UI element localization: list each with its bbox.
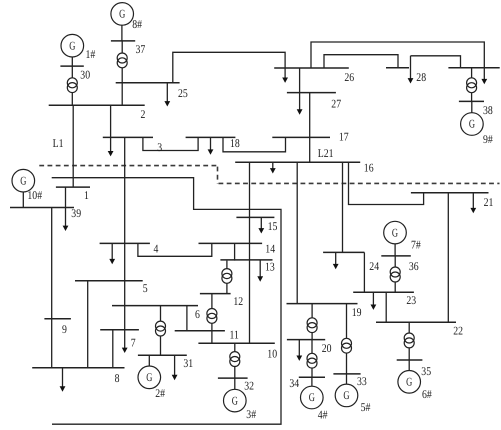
wire bus16-bus24 — [342, 162, 344, 252]
label 8 — [115, 371, 120, 385]
load arrow bus13 — [257, 260, 263, 282]
label 4 — [154, 242, 159, 256]
wire bus23-bus22 — [385, 292, 387, 322]
wire line26-29 outer — [311, 42, 484, 68]
label 6 — [195, 307, 200, 321]
svg-text:G: G — [392, 225, 398, 239]
generator 10# — [12, 169, 35, 192]
load arrow bus25 — [164, 83, 170, 107]
bus 21 — [411, 192, 489, 194]
transformer T13-12 — [222, 269, 232, 284]
transformer T29-38 — [467, 78, 477, 93]
label 34 — [289, 376, 299, 390]
stem G2#-bus31 — [148, 355, 150, 366]
generator 8# — [111, 3, 134, 26]
generator 1# — [61, 34, 84, 57]
load arrow bus18 — [208, 137, 214, 154]
label 17 — [339, 129, 349, 143]
dashed tie-line boundary (left) — [39, 165, 217, 167]
bus 30 — [60, 65, 83, 67]
svg-text:7#: 7# — [411, 238, 421, 252]
svg-text:G: G — [20, 173, 26, 187]
wire bus21-bus22 — [447, 193, 449, 323]
bus 33 — [333, 373, 360, 375]
label 6# — [422, 387, 432, 401]
load arrow bus8 — [60, 368, 66, 392]
wire bus22-bus35 (via T22-35) — [408, 322, 410, 360]
label 3 — [157, 140, 162, 154]
transformer T6-31 — [156, 321, 166, 336]
svg-text:G: G — [146, 370, 152, 384]
load arrow bus23 — [371, 292, 377, 310]
wire big loop bus1-area — [52, 178, 281, 425]
transformer T20-34 — [307, 353, 317, 368]
stem G7#-bus36 — [394, 244, 396, 256]
svg-text:14: 14 — [265, 241, 275, 255]
svg-text:16: 16 — [364, 161, 374, 175]
svg-text:9: 9 — [62, 322, 67, 336]
wire bus19-bus33 (via T19-33) — [346, 304, 348, 374]
transformer T22-35 — [404, 333, 414, 348]
label 33 — [357, 374, 367, 388]
svg-text:22: 22 — [453, 324, 463, 338]
label 1# — [86, 47, 96, 61]
generator 2# — [138, 366, 161, 389]
bus 27 — [287, 92, 336, 94]
label 7 — [131, 335, 136, 349]
wire bus16-bus19 — [296, 162, 298, 303]
wire bus36-bus23 (via T36-23) — [394, 256, 396, 292]
label 16 — [364, 161, 374, 175]
load arrow bus16 — [270, 162, 276, 173]
label L1 — [53, 136, 64, 150]
wire bus16-bus21 — [349, 162, 424, 204]
svg-text:34: 34 — [289, 376, 299, 390]
load arrow bus7 (long line) — [122, 137, 128, 353]
bus 1 — [56, 186, 90, 188]
svg-text:G: G — [119, 7, 125, 21]
label 11 — [230, 327, 240, 341]
generator 4# — [301, 386, 324, 409]
label 37 — [136, 42, 146, 56]
bus 31 — [138, 354, 187, 356]
svg-text:39: 39 — [71, 206, 81, 220]
load arrow bus26 (line from 25) — [282, 62, 288, 83]
svg-text:11: 11 — [230, 327, 240, 341]
transformer T19-20 — [307, 318, 317, 333]
bus 3 — [103, 136, 153, 138]
bus 7 — [100, 329, 139, 331]
stem G10#-bus39 — [22, 192, 24, 208]
label 9# — [483, 132, 493, 146]
transformer T36-23 — [390, 267, 400, 282]
load arrow bus4 — [109, 243, 115, 264]
label 5# — [361, 400, 371, 414]
label 2 — [141, 107, 146, 121]
svg-text:35: 35 — [421, 364, 431, 378]
svg-text:38: 38 — [483, 103, 493, 117]
svg-text:2: 2 — [141, 107, 146, 121]
transformer T37-2 — [117, 53, 127, 68]
bus 14 — [199, 242, 263, 244]
stem G3#-bus32 — [234, 378, 236, 390]
bus 19 — [287, 303, 358, 305]
wire bus6-bus11 — [186, 306, 188, 331]
svg-text:21: 21 — [484, 195, 494, 209]
bus 23 — [353, 291, 414, 293]
svg-text:1: 1 — [84, 188, 89, 202]
label 27 — [331, 97, 341, 111]
svg-text:G: G — [309, 390, 315, 404]
svg-text:17: 17 — [339, 129, 349, 143]
label 8# — [132, 17, 142, 31]
stem G5#-bus33 — [346, 374, 348, 384]
svg-text:1#: 1# — [86, 47, 96, 61]
bus 15 — [236, 216, 274, 218]
bus 6 — [112, 305, 198, 307]
dashed tie-line boundary (right) — [219, 182, 500, 184]
svg-text:G: G — [69, 38, 75, 52]
wire bus25-bus26 — [173, 52, 285, 83]
bus 2 — [49, 104, 145, 106]
wire L1 bus2-bus1 — [72, 105, 74, 187]
label 35 — [421, 364, 431, 378]
label 23 — [406, 293, 416, 307]
wire line3-18 — [143, 137, 198, 150]
svg-text:12: 12 — [233, 294, 243, 308]
svg-text:27: 27 — [331, 97, 341, 111]
wire bus27-bus17-bus16 (L21) — [309, 93, 311, 163]
transformer T12-11 — [207, 309, 217, 324]
wire bus10-bus32 (via T10-32) — [234, 343, 236, 377]
svg-text:31: 31 — [183, 356, 193, 370]
wire bus19-bus20 (via T19-20) — [311, 304, 313, 340]
generator 3# — [224, 389, 247, 412]
svg-text:15: 15 — [268, 219, 278, 233]
stem G8#-bus37 — [121, 25, 123, 41]
wire bus13-bus12 (via T13-12) — [226, 261, 228, 294]
bus 26 — [274, 67, 349, 69]
label 20 — [322, 341, 332, 355]
wire line28-29 — [411, 56, 461, 68]
svg-text:5: 5 — [143, 281, 148, 295]
bus 8 — [32, 367, 124, 369]
bus 4 — [100, 242, 150, 244]
bus 11 — [175, 330, 225, 332]
bus 13 — [220, 259, 272, 261]
load arrow bus29 (outer line) — [481, 62, 487, 84]
bus 32 — [218, 377, 248, 379]
svg-text:G: G — [343, 388, 349, 402]
label 19 — [352, 305, 362, 319]
svg-text:3#: 3# — [246, 407, 256, 421]
load arrow bus31 — [172, 355, 178, 380]
label 3# — [246, 407, 256, 421]
transformer T30-2 — [67, 78, 77, 93]
bus 39 — [10, 207, 74, 209]
svg-text:33: 33 — [357, 374, 367, 388]
svg-text:28: 28 — [416, 70, 426, 84]
label 18 — [230, 136, 240, 150]
label 9 — [62, 322, 67, 336]
wire line18-17 — [223, 137, 286, 151]
wire bus24-bus23 — [363, 252, 365, 292]
label 21 — [484, 195, 494, 209]
bus 12 — [200, 293, 231, 295]
wire bus14-bus13 — [234, 243, 236, 260]
svg-text:6#: 6# — [422, 387, 432, 401]
load arrow bus20 — [296, 340, 302, 361]
wire bus12-bus11-bus10 (via T12-11) — [211, 294, 213, 344]
svg-text:5#: 5# — [361, 400, 371, 414]
bus 25 — [116, 82, 180, 84]
svg-text:7: 7 — [131, 335, 136, 349]
svg-text:19: 19 — [352, 305, 362, 319]
wire bus39-bus9-bus8 — [51, 208, 53, 368]
bus 9 — [44, 318, 71, 320]
label 32 — [244, 379, 254, 393]
bus 28 — [386, 67, 409, 69]
wire bus6-bus31 (via T6-31) — [160, 306, 162, 356]
svg-text:18: 18 — [230, 136, 240, 150]
svg-text:G: G — [232, 393, 238, 407]
svg-text:23: 23 — [406, 293, 416, 307]
load arrow bus28 (line28-29) — [408, 56, 414, 84]
wire line26-28 — [324, 55, 398, 68]
svg-text:24: 24 — [369, 259, 379, 273]
wire bus37-bus2 (via T37-2) — [121, 41, 123, 105]
bus 22 — [376, 321, 456, 323]
bus 20 — [287, 339, 325, 341]
label 25 — [178, 86, 188, 100]
label 2# — [155, 386, 165, 400]
svg-text:L1: L1 — [53, 136, 64, 150]
wire bus5-bus8 — [87, 281, 89, 368]
wire bus26-bus27 — [299, 68, 301, 93]
svg-text:10: 10 — [267, 346, 277, 360]
label 12 — [233, 294, 243, 308]
svg-text:4: 4 — [154, 242, 159, 256]
svg-text:8: 8 — [115, 371, 120, 385]
label 26 — [344, 70, 354, 84]
wire bus30-bus2 (via T30-2) — [71, 66, 73, 105]
svg-text:13: 13 — [265, 259, 275, 273]
label 1 — [84, 188, 89, 202]
generator 7# — [384, 221, 407, 244]
bus 35 — [397, 359, 423, 361]
svg-text:37: 37 — [136, 42, 146, 56]
generator 5# — [335, 384, 358, 407]
label 7# — [411, 238, 421, 252]
bus 37 — [111, 40, 135, 42]
generator 6# — [398, 371, 421, 394]
wire bus7-bus8 — [112, 330, 114, 368]
bus 34 — [299, 376, 325, 378]
generator 9# — [461, 113, 484, 136]
load arrow bus3 (from bus2) — [108, 105, 114, 156]
svg-text:3: 3 — [157, 140, 162, 154]
load arrow bus21 — [470, 193, 476, 214]
bus 16 — [235, 161, 360, 163]
label 10# — [27, 188, 42, 202]
transformer T19-33 — [342, 338, 352, 353]
load arrow bus24 — [333, 252, 339, 269]
wire bus29-bus38 (via T29-38) — [471, 68, 473, 102]
stem G6#-bus35 — [408, 360, 410, 371]
bus 38 — [459, 100, 484, 102]
bus 17 — [272, 136, 330, 138]
svg-text:25: 25 — [178, 86, 188, 100]
svg-text:4#: 4# — [318, 407, 328, 421]
svg-text:30: 30 — [80, 67, 90, 81]
bus 29 — [448, 67, 499, 69]
label 28 — [416, 70, 426, 84]
dashed tie-line boundary (step) — [217, 167, 219, 184]
svg-text:20: 20 — [322, 341, 332, 355]
stem G4#-bus34 — [311, 377, 313, 386]
label 30 — [80, 67, 90, 81]
transformer T10-32 — [230, 352, 240, 367]
svg-text:G: G — [406, 375, 412, 389]
wire bus14-bus4 — [138, 243, 212, 256]
load arrow bus15 — [258, 217, 264, 233]
bus 10 — [198, 342, 274, 344]
svg-text:G: G — [469, 117, 475, 131]
svg-text:9#: 9# — [483, 132, 493, 146]
bus 36 — [381, 255, 411, 257]
load arrow bus39 (line1-39) — [63, 187, 69, 231]
bus 18 — [186, 136, 236, 138]
label 10 — [267, 346, 277, 360]
bus 5 — [75, 280, 143, 282]
wire bus16-bus15-bus14-bus13-bus10 — [249, 162, 251, 343]
stem G1#-bus30 — [71, 57, 73, 66]
svg-text:32: 32 — [244, 379, 254, 393]
svg-text:10#: 10# — [27, 188, 42, 202]
svg-text:8#: 8# — [132, 17, 142, 31]
label 13 — [265, 259, 275, 273]
label 15 — [268, 219, 278, 233]
svg-text:2#: 2# — [155, 386, 165, 400]
svg-text:L21: L21 — [318, 146, 334, 160]
svg-text:36: 36 — [409, 259, 419, 273]
label 38 — [483, 103, 493, 117]
label 5 — [143, 281, 148, 295]
load arrow bus27 — [297, 93, 303, 115]
label 4# — [318, 407, 328, 421]
label 24 — [369, 259, 379, 273]
label 14 — [265, 241, 275, 255]
label 39 — [71, 206, 81, 220]
svg-text:26: 26 — [344, 70, 354, 84]
label 22 — [453, 324, 463, 338]
svg-text:6: 6 — [195, 307, 200, 321]
wire bus20-bus34 (via T20-34) — [311, 340, 313, 378]
stem G9#-bus38 — [471, 101, 473, 112]
label 36 — [409, 259, 419, 273]
label L21 — [318, 146, 334, 160]
label 31 — [183, 356, 193, 370]
bus 24 — [323, 251, 364, 253]
